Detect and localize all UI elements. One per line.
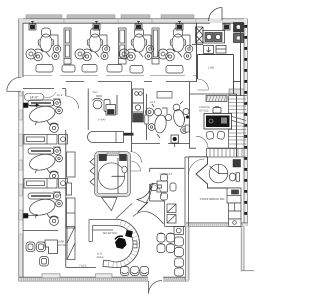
hall wedge (door funnel) [102,198,118,211]
corp office chairs [26,242,49,266]
exterior wall: right (with column dots) [244,19,248,227]
dental chair op2 [75,28,110,61]
svg-text:PAN: PAN [93,91,98,94]
hall fin (curved wall) [137,183,153,203]
partition cabinet 2 [119,28,127,64]
dental chair op3 [119,28,154,61]
door arc into op row2 [66,96,79,109]
partition cabinet 1 [64,28,71,64]
staff corridor door arc [189,159,205,175]
exterior door: left wall, arc outside [7,77,21,91]
staff east cabinets [227,188,241,226]
equipment box with X [196,27,204,43]
phone on desk [213,106,221,113]
svg-text:OFFICE: OFFICE [199,110,209,113]
se restroom turning circle [209,164,228,183]
right equipment column (dark) [225,23,244,43]
exterior wall: top [19,15,248,23]
office door arc [196,136,208,148]
desk (dark) [204,114,232,130]
stairs: horizontal run [207,148,247,157]
right wall column markers [244,25,247,215]
wall utility box op3 [135,21,142,30]
wall box op row2 [24,103,40,108]
file cabinet [67,227,75,260]
wall below sterilization [192,44,203,46]
restroom outer walls (thick, rounded) [95,152,131,197]
reception desk chair (dark) [115,236,127,249]
b.o. south wall [66,267,96,269]
waiting room east wall [186,226,189,280]
dental chair op4 [158,28,193,61]
svg-text:RECEPTION: RECEPTION [103,232,118,235]
dental chair op1 [26,28,61,61]
lab room walls [198,55,241,95]
stair top landing [229,89,244,96]
svg-text:14'-4": 14'-4" [57,94,64,97]
exterior wall: southeast (below staff room) [186,223,247,227]
restroom divider [112,158,126,194]
se restroom walls with angled bay [196,157,241,188]
restroom toilet [122,166,127,173]
sterilization counter with sinks [203,31,225,44]
exterior wall: bottom (hatched) [19,277,189,281]
entrance door bottom [149,281,163,294]
office guest chairs [206,131,225,140]
office east wall [236,94,238,157]
consult door arc [150,184,162,196]
dental chair left-op B [28,147,63,180]
dimension tag op row2 [25,93,64,101]
vestibule west wall [196,23,198,82]
svg-text:14'-4": 14'-4" [150,101,157,104]
interior wall: vestibule/stair divider [240,24,242,96]
op row2 north wall [23,88,66,90]
floor box [171,135,179,147]
exterior wall: lower right vertical [241,226,254,271]
entry pilaster center [96,274,113,278]
hygiene wall fixtures [145,115,189,132]
counter between left ops 1 [24,135,68,145]
svg-text:AREA: AREA [96,256,103,259]
counter between left ops 2 [24,179,68,189]
wall utility box op2 [93,21,100,30]
waiting chairs bottom row [121,267,149,276]
office north wall [190,93,237,95]
hygiene chair right [172,101,189,133]
consult desk [157,181,168,192]
office south wall [190,147,237,149]
corridor south wall east segment [66,81,197,83]
hall diagonal wall [138,202,149,213]
hygiene chair left [146,104,172,138]
corp office north wall [23,230,58,232]
hygiene east wall [189,82,191,149]
corridor cabinets east of wall [67,152,76,228]
reception curved counter (C hook, hatched) [103,220,140,268]
alcove equipment box [106,105,116,116]
alcove furniture: chair [93,96,111,112]
restroom door arcs [131,152,142,171]
se dark corner box [233,160,241,168]
reception side stand [133,241,137,248]
credenza hatched [206,96,227,102]
svg-text:LAB: LAB [208,66,214,70]
exterior wall: left with windows [19,19,24,282]
hygiene south wall [132,143,190,145]
dental chair left-op C [28,192,63,225]
wall utility box op1 [29,21,36,30]
exterior door: top right entrance [209,8,223,22]
entry sill block left [42,274,60,278]
hall diagonal wall to counter [116,204,132,219]
sterilizer boxes [204,46,227,54]
sterilization strip walls [132,82,147,152]
svg-text:FILES: FILES [79,265,86,268]
svg-text:STAFF BREAK RM: STAFF BREAK RM [200,197,225,201]
corridor double wall (consult/staff) [185,157,189,226]
b.o. west wall [65,231,67,268]
storage room south of consult [165,201,186,226]
alcove south counter [88,132,124,143]
svg-text:14'-0": 14'-0" [30,96,39,100]
alcove east wall [116,95,118,115]
restroom sink left (dark) [99,155,107,161]
dental chair left-op A [28,99,63,132]
waiting side table ne [174,227,184,235]
bifold door marks [90,158,95,186]
consult walls [150,168,185,201]
thick wall stub [124,133,134,136]
svg-text:OFFICE: OFFICE [57,244,66,247]
restroom turning circle [98,163,124,189]
partition cabinet 3 [152,28,159,64]
vestibule panel box [223,24,230,30]
foot cabinets op row [36,65,183,74]
svg-text:X-RAY: X-RAY [98,119,106,122]
sterilization strip cabinets [133,89,144,122]
reception monitor (dark) [125,230,133,238]
corridor north line [23,75,196,77]
corridor west wall x65 [65,89,67,231]
hygiene bay tag [150,92,172,105]
corp office desk [45,240,58,254]
se restroom toilet [229,173,239,181]
waiting chairs 2x2 [157,233,175,253]
waiting chairs east column [175,237,184,276]
b.o. counter top bar [89,220,117,242]
wall utility box op4 [176,21,183,30]
restroom top sill (hatched) [107,151,119,156]
restroom sink right (dark) [120,155,127,161]
consult chairs [151,174,177,200]
waiting entry arch [133,211,164,224]
stairs: vertical run [229,96,248,149]
consultation alcove room west wall [87,89,89,130]
staff corridor wall [189,156,208,158]
wall box op row3 [24,214,39,219]
lab door arc [198,79,209,90]
